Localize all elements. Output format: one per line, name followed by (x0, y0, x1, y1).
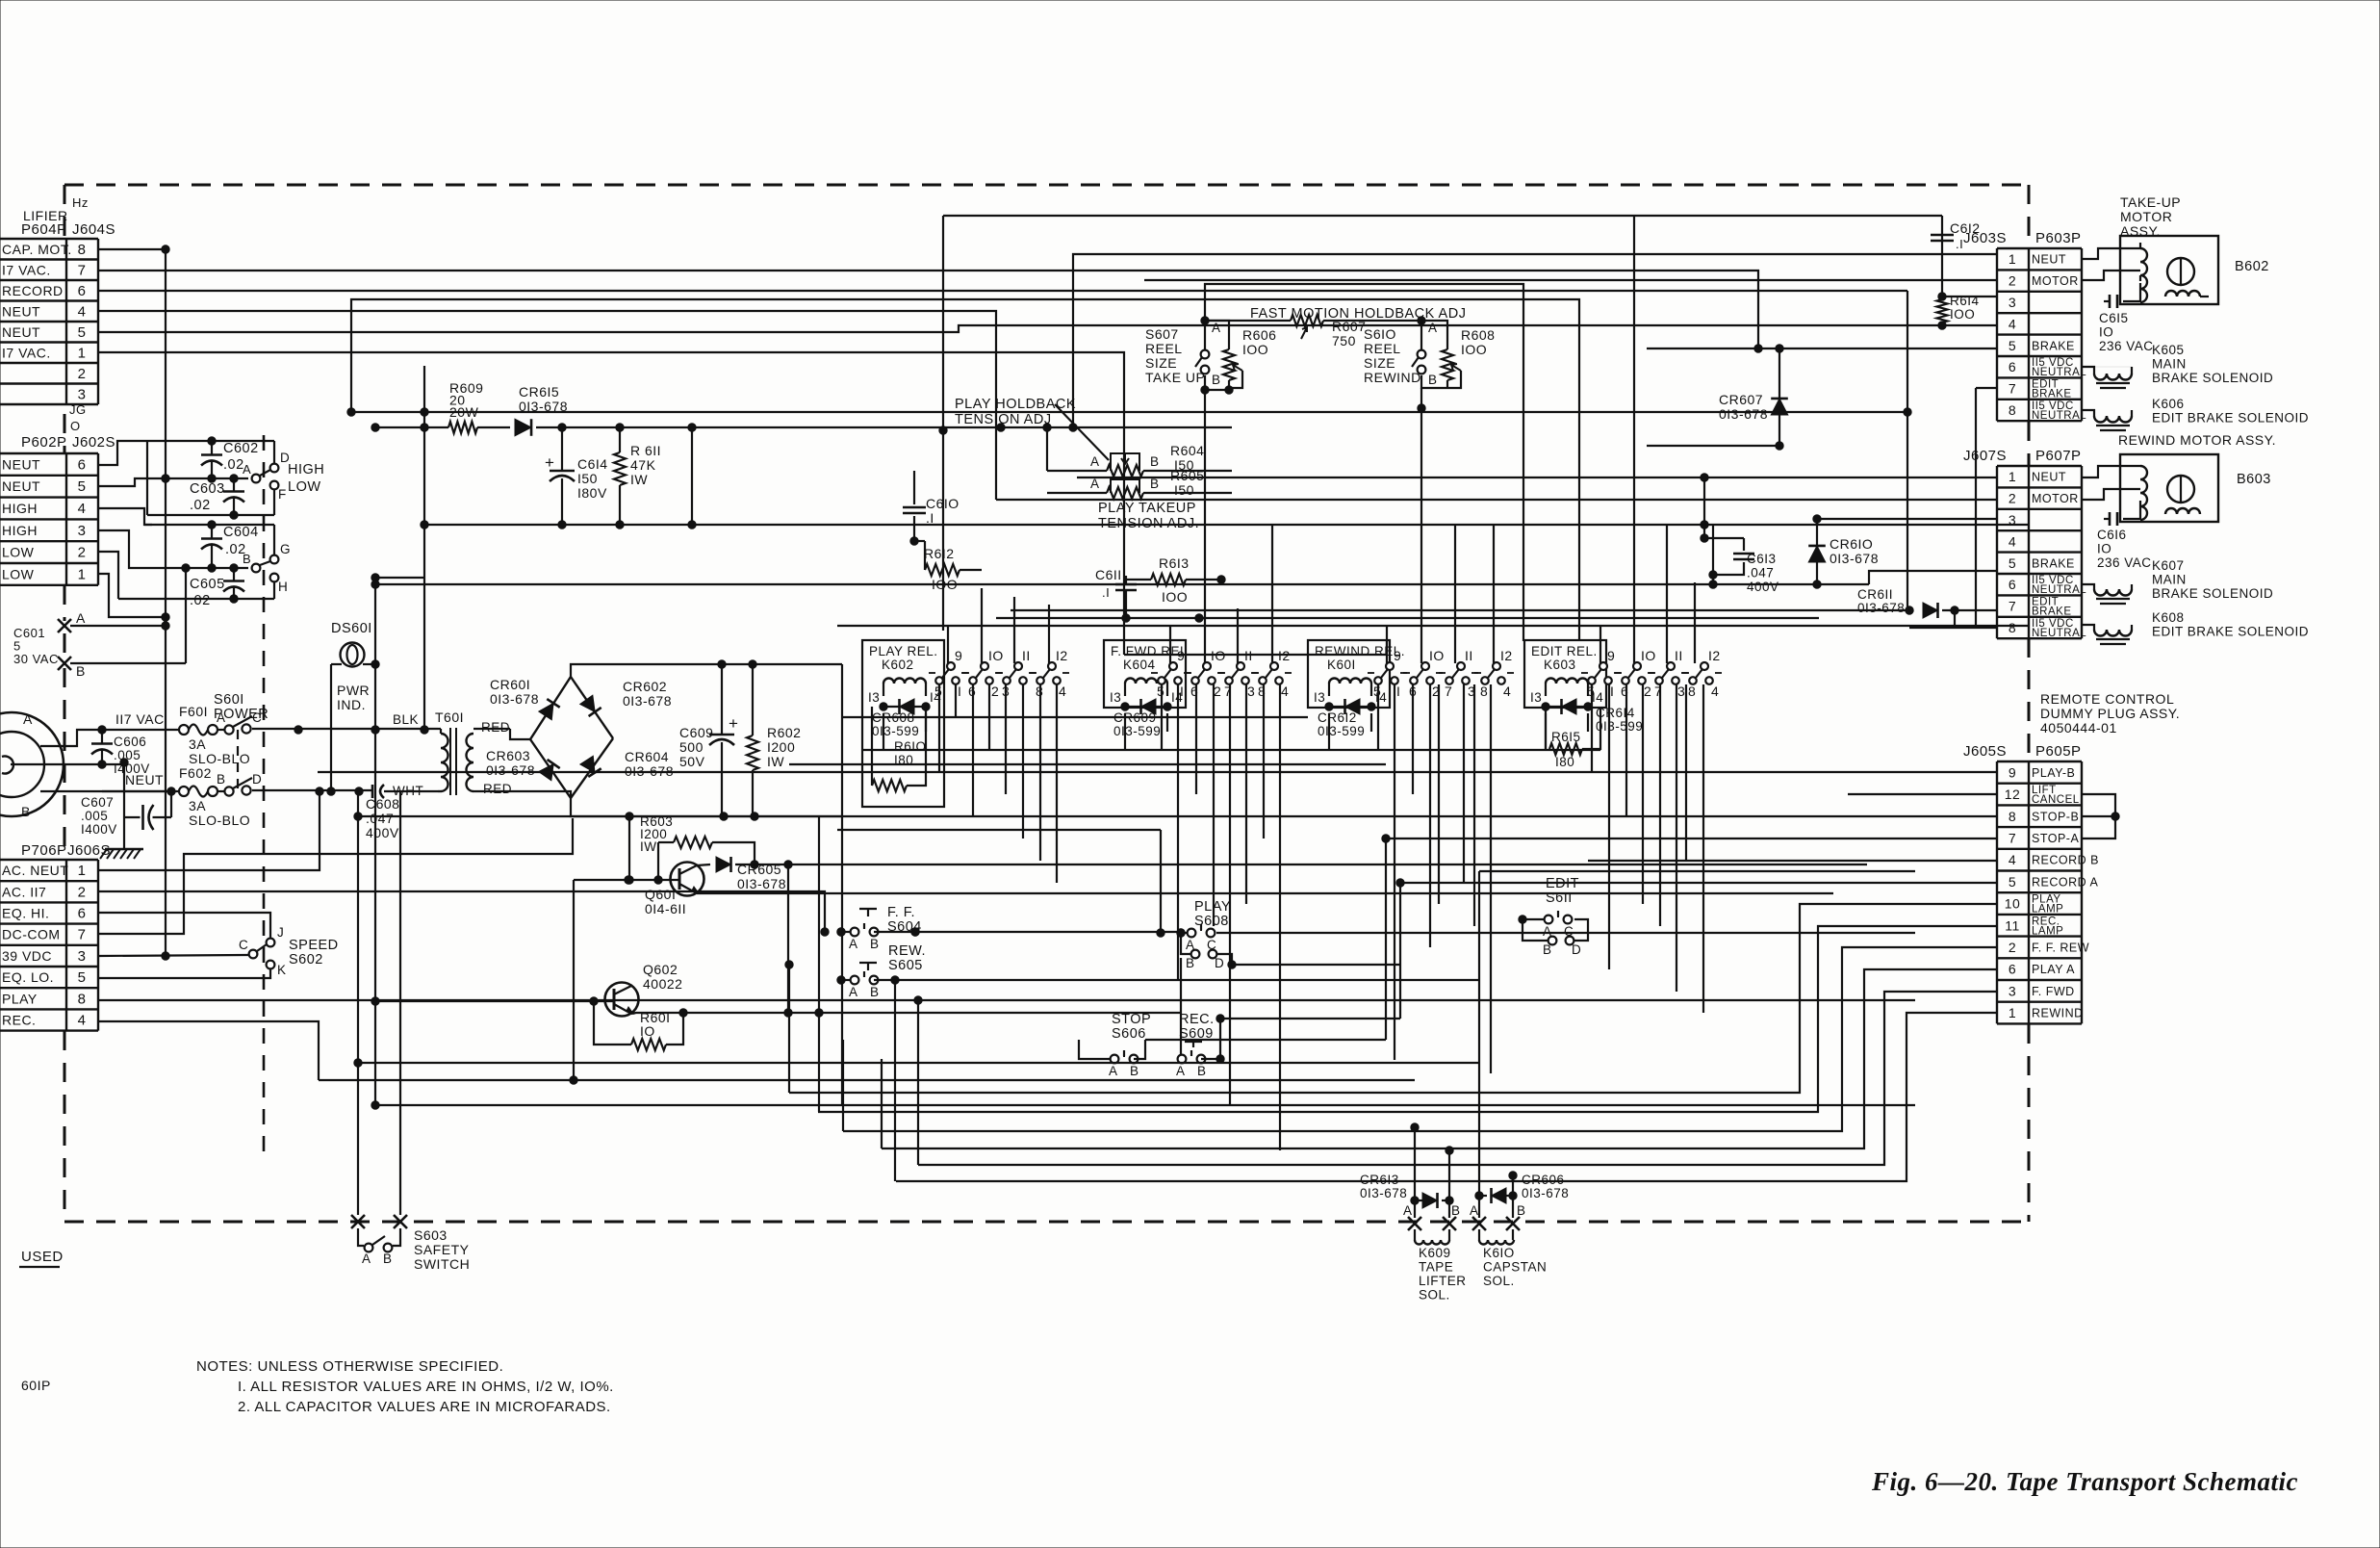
P605P loopback LIFT CANCEL to STOP-B (2082, 794, 2115, 816)
svg-text:R6IO: R6IO (894, 739, 927, 754)
svg-text:B: B (1543, 942, 1552, 957)
wire J604S pin7 bus down to brake line (98, 271, 1758, 348)
svg-text:SLO-BLO: SLO-BLO (189, 751, 250, 766)
relay contact I2/8/4 (1493, 662, 1500, 670)
svg-text:CR604: CR604 (625, 749, 669, 764)
switch S607 REEL SIZE TAKEUP (1204, 321, 1206, 349)
svg-text:0I3-678: 0I3-678 (486, 762, 535, 778)
svg-text:NOTES: UNLESS OTHERWISE SPEC: NOTES: UNLESS OTHERWISE SPECIFIED. (196, 1358, 503, 1375)
svg-text:39 VDC: 39 VDC (2, 948, 52, 964)
svg-text:RED: RED (481, 720, 510, 735)
cell1 bottom line (147, 514, 274, 516)
svg-text:B: B (383, 1251, 393, 1266)
wire J606S pin3 39VDC to S602 C (98, 955, 248, 956)
svg-text:S605: S605 (888, 958, 923, 973)
wire CR605 output right (755, 864, 1867, 865)
svg-text:A: A (1176, 1064, 1186, 1078)
svg-text:CANCEL: CANCEL (2032, 794, 2080, 806)
DC- rail from bridge bottom (571, 798, 842, 816)
svg-text:5: 5 (78, 324, 87, 341)
svg-text:1: 1 (2009, 1005, 2016, 1020)
svg-text:CR6I2: CR6I2 (1318, 710, 1357, 725)
svg-text:RED: RED (483, 782, 512, 796)
relay contact 9/5/I (1386, 662, 1394, 670)
svg-text:CR60I: CR60I (490, 677, 530, 692)
safety switch S603 (358, 1228, 364, 1246)
relay K604 coil (1125, 679, 1167, 684)
vertical S605 output drop (894, 980, 896, 1181)
svg-text:CR606: CR606 (1522, 1173, 1565, 1187)
solenoid K605 MAIN BRAKE (2082, 367, 2094, 374)
svg-text:B: B (1197, 1064, 1207, 1078)
connector J604S (to amplifier P604P) pin table (0, 238, 98, 240)
svg-text:CAP. MOT.: CAP. MOT. (2, 242, 72, 257)
svg-text:C607: C607 (81, 795, 114, 810)
svg-text:LOW: LOW (2, 545, 35, 560)
wire motor connections B603 (2082, 466, 2140, 477)
wire J606S pin4 REC bus (98, 1021, 319, 1080)
svg-text:IO: IO (988, 648, 1004, 663)
wire S610/R608 bottom (1421, 375, 1447, 388)
capacitor C608 in neutral line (371, 785, 374, 798)
svg-text:LAMP: LAMP (2032, 904, 2063, 916)
svg-text:B: B (1130, 1064, 1139, 1078)
svg-text:S607: S607 (1145, 326, 1179, 342)
svg-text:REEL: REEL (1145, 341, 1183, 356)
svg-text:Q60I: Q60I (645, 887, 676, 902)
svg-text:CR607: CR607 (1719, 392, 1763, 407)
svg-text:CR6I4: CR6I4 (1596, 706, 1635, 720)
svg-text:EDIT REL.: EDIT REL. (1531, 644, 1598, 658)
relay feed horizontals (841, 664, 843, 1105)
wire F to cell1 bottom (273, 489, 275, 515)
svg-text:CR603: CR603 (486, 748, 530, 763)
svg-text:LIFIER: LIFIER (23, 208, 68, 223)
wire plug center to neutral (11, 763, 124, 765)
svg-text:2: 2 (2009, 940, 2016, 955)
svg-text:P607P: P607P (2035, 448, 2082, 464)
svg-text:0I3-678: 0I3-678 (623, 693, 672, 709)
svg-text:9: 9 (1607, 648, 1615, 663)
power plug P601 (clipped at sheet edge) (0, 712, 64, 816)
wire J604S pin1 117VAC bus (98, 352, 1124, 655)
wire Q602 emitter rail (631, 1013, 1181, 1014)
svg-text:C608: C608 (366, 796, 399, 812)
svg-text:0I3-599: 0I3-599 (872, 724, 919, 738)
svg-text:R607: R607 (1332, 319, 1366, 334)
svg-text:R6I5: R6I5 (1551, 730, 1581, 744)
wire plug A to 117 VAC line (40, 730, 102, 746)
wire J606S pin1 (98, 791, 320, 870)
svg-text:PLAY REL.: PLAY REL. (869, 644, 938, 658)
motor B603 phase winding (2165, 508, 2200, 514)
motor B603 rotor (2167, 476, 2194, 503)
bundle left risers (788, 965, 790, 1093)
svg-text:NEUT: NEUT (2, 478, 40, 494)
svg-text:IO: IO (2097, 542, 2111, 556)
svg-text:I: I (958, 684, 961, 699)
wire brake feed line (1647, 348, 1997, 349)
svg-text:2: 2 (78, 366, 87, 382)
svg-text:S603: S603 (414, 1227, 448, 1243)
wire fast motion rail (1205, 320, 1291, 322)
svg-text:I3: I3 (1530, 690, 1542, 705)
svg-text:B602: B602 (2235, 259, 2269, 274)
svg-text:1: 1 (2009, 469, 2016, 484)
wire bundle row STOP-B (358, 815, 1997, 817)
svg-text:J605S: J605S (1963, 743, 2007, 760)
resistor R611 47K 1W (616, 424, 624, 431)
svg-text:.02: .02 (190, 593, 211, 608)
svg-text:O: O (70, 419, 81, 433)
svg-text:BLK: BLK (393, 712, 419, 727)
svg-text:I200: I200 (767, 739, 795, 755)
svg-text:NEUT: NEUT (2032, 471, 2066, 484)
svg-text:3A: 3A (189, 798, 206, 813)
svg-text:I3: I3 (1110, 690, 1121, 705)
misc junction dots (911, 928, 919, 936)
capacitor C603 (223, 490, 244, 493)
wire J602S pin3 to B-line (98, 530, 248, 568)
speed switch S602 (249, 950, 258, 959)
svg-text:C6I6: C6I6 (2097, 528, 2127, 542)
wire J603S pin2 MOTOR bus (1144, 279, 1997, 281)
svg-text:PLAY HOLDBACK: PLAY HOLDBACK (955, 397, 1076, 412)
svg-text:500: 500 (679, 739, 704, 755)
svg-text:NEUT: NEUT (2, 324, 40, 340)
switch S610 REEL SIZE REWIND (1420, 321, 1422, 349)
svg-text:20W: 20W (449, 404, 479, 420)
svg-text:I80V: I80V (577, 485, 607, 501)
power switch S601 A-C (218, 729, 225, 731)
resistor R601 10 (594, 1001, 631, 1045)
svg-text:S602: S602 (289, 952, 323, 967)
sub-assembly dashed boundary (263, 435, 266, 1160)
svg-text:C603: C603 (190, 481, 225, 497)
relay K603 coil (1546, 679, 1588, 684)
svg-text:2: 2 (991, 684, 999, 699)
wire 117VAC rail to R609 (375, 426, 448, 428)
relay contact IO/6/2 (981, 662, 988, 670)
relay contact II/7/3 (1457, 662, 1465, 670)
svg-text:CR602: CR602 (623, 679, 667, 694)
wire S601-C to transformer BLK (252, 728, 438, 730)
svg-text:0I3-599: 0I3-599 (1113, 724, 1161, 738)
relay K60I coil (1329, 679, 1371, 684)
svg-text:B: B (870, 985, 880, 999)
svg-text:2: 2 (2009, 273, 2016, 289)
svg-text:P602P: P602P (21, 434, 67, 451)
svg-text:0I4-6II: 0I4-6II (645, 901, 686, 916)
svg-text:WHT: WHT (393, 784, 423, 798)
svg-text:4: 4 (2009, 533, 2016, 549)
svg-text:K604: K604 (1123, 658, 1156, 672)
svg-text:BRAKE SOLENOID: BRAKE SOLENOID (2152, 371, 2273, 385)
svg-text:9: 9 (2009, 764, 2016, 780)
svg-text:SOL.: SOL. (1419, 1288, 1450, 1303)
relay contact 9/5/I (947, 662, 955, 670)
relay contact II/7/3 (1667, 662, 1675, 670)
svg-text:9: 9 (955, 648, 962, 663)
svg-text:3: 3 (2009, 295, 2016, 310)
svg-text:8: 8 (2009, 620, 2016, 635)
solenoid K606 EDIT BRAKE (2082, 410, 2094, 416)
capacitor C611 .1 (1125, 576, 1127, 584)
svg-text:K603: K603 (1544, 658, 1576, 672)
relay contact IO/6/2 (1203, 662, 1211, 670)
svg-text:REEL: REEL (1364, 341, 1401, 356)
wire J602S pin6 jog to cell1 top (98, 441, 141, 465)
wire bundle row STOP-A (1386, 838, 1997, 839)
svg-text:B: B (217, 772, 226, 787)
relay K602 box (862, 640, 944, 807)
diode CR610 013-678 (1816, 519, 1818, 584)
svg-text:B: B (1186, 956, 1195, 970)
svg-text:236 VAC: 236 VAC (2097, 555, 2152, 570)
svg-text:S6II: S6II (1546, 890, 1573, 906)
svg-text:K609: K609 (1419, 1246, 1451, 1260)
svg-text:I3: I3 (868, 690, 880, 705)
svg-text:2: 2 (1214, 684, 1221, 699)
vertical x=819 (CR605 to emitter rail) (787, 864, 789, 1013)
svg-text:2: 2 (78, 545, 87, 561)
svg-text:MAIN: MAIN (2152, 573, 2187, 587)
svg-text:.005: .005 (81, 809, 108, 823)
svg-text:P605P: P605P (2035, 743, 2082, 760)
svg-text:R 6II: R 6II (630, 443, 661, 458)
svg-text:A: A (1403, 1203, 1413, 1218)
svg-text:F. F.: F. F. (887, 905, 915, 920)
relay contact IO/6/2 (1421, 662, 1429, 670)
svg-text:8: 8 (2009, 809, 2016, 824)
svg-text:R6I4: R6I4 (1950, 294, 1980, 308)
transistor Q601 014-611 (671, 863, 704, 896)
svg-text:I2: I2 (1500, 648, 1513, 663)
relay coil pin drops (883, 713, 884, 750)
wire G to cell2 top (273, 525, 275, 555)
resistor R609 20 20W (448, 422, 477, 433)
motor B602 phase winding (2165, 291, 2200, 297)
safety switch S603 boundary X marks (351, 1215, 365, 1228)
svg-text:REMOTE CONTROL: REMOTE CONTROL (2040, 691, 2174, 707)
svg-text:4: 4 (1281, 684, 1289, 699)
svg-text:2: 2 (2009, 491, 2016, 506)
svg-text:IOO: IOO (1461, 342, 1487, 357)
wire J603S pin3 stub (1942, 296, 1997, 297)
wire node B riser (185, 568, 187, 663)
svg-text:A: A (1090, 454, 1100, 469)
enclosure dashed boundary (machine chassis) (64, 185, 2029, 1222)
svg-text:A: A (243, 462, 251, 477)
svg-text:C6I5: C6I5 (2099, 311, 2129, 325)
svg-text:4: 4 (78, 501, 87, 517)
svg-text:H: H (278, 580, 288, 594)
svg-text:T60I: T60I (435, 709, 464, 725)
fuse F602 3A SLO-BLO (167, 787, 175, 795)
diode CR613 013-678 (1411, 1197, 1419, 1204)
svg-text:B: B (870, 937, 880, 951)
svg-text:K60I: K60I (1327, 658, 1356, 672)
vertical feeds right area (1907, 291, 1908, 610)
svg-text:C609: C609 (679, 725, 713, 740)
svg-text:10: 10 (2005, 896, 2021, 912)
svg-text:C604: C604 (223, 525, 259, 540)
svg-text:B: B (1451, 1203, 1461, 1218)
svg-text:5: 5 (78, 478, 87, 495)
svg-text:LIFTER: LIFTER (1419, 1274, 1467, 1288)
diode CR608 (883, 706, 926, 708)
svg-text:F: F (278, 487, 287, 502)
svg-text:0I3-678: 0I3-678 (737, 876, 786, 891)
svg-text:NEUT: NEUT (2, 303, 40, 319)
svg-text:IOO: IOO (1950, 307, 1975, 322)
svg-text:+: + (729, 714, 738, 733)
svg-text:1: 1 (78, 863, 87, 879)
wire bundle row RECORD A (1400, 882, 1997, 884)
svg-text:B: B (1150, 454, 1160, 469)
switch S604 F.F. (841, 931, 851, 933)
wire J607S pin2 MOTOR (996, 499, 1997, 501)
svg-text:F. FWD: F. FWD (2032, 985, 2075, 998)
wire Q602 base from left (375, 1000, 614, 1002)
svg-text:8: 8 (78, 242, 87, 258)
resistor R612 100 (914, 540, 925, 542)
svg-text:I: I (1610, 684, 1614, 699)
wire J602S pin1 jog (98, 574, 166, 617)
svg-text:PLAY TAKEUP: PLAY TAKEUP (1098, 501, 1196, 516)
svg-text:7: 7 (78, 262, 87, 278)
svg-text:0I3-599: 0I3-599 (1318, 724, 1365, 738)
solenoid K607 MAIN BRAKE (2082, 584, 2094, 589)
leader line to R604 (1055, 404, 1109, 460)
svg-text:DC-COM: DC-COM (2, 927, 61, 942)
svg-text:6: 6 (78, 283, 87, 299)
S601 mechanical dashed link (237, 730, 239, 791)
wire D to cell1 top (273, 441, 275, 464)
svg-text:CR6I3: CR6I3 (1360, 1173, 1399, 1187)
relay contact I2/8/4 (1701, 662, 1708, 670)
svg-text:TENSION ADJ.: TENSION ADJ. (1098, 516, 1199, 531)
wire J604S pin5 NEUT bus to J603S pin4 (98, 325, 1997, 332)
svg-text:I: I (1180, 684, 1184, 699)
wire J604S pin8 stub (98, 248, 166, 250)
diode CR606 013-678 (1475, 1192, 1483, 1200)
svg-text:12: 12 (2005, 787, 2021, 802)
capacitor C605 (223, 580, 244, 582)
svg-text:AC. II7: AC. II7 (2, 884, 46, 899)
svg-text:SLO-BLO: SLO-BLO (189, 813, 250, 828)
svg-text:3: 3 (78, 948, 87, 965)
wire J607S pin1 NEUT (1077, 477, 1997, 478)
svg-text:I: I (1396, 684, 1400, 699)
svg-text:I7 VAC.: I7 VAC. (2, 345, 51, 360)
svg-text:40022: 40022 (643, 976, 682, 992)
cell2 top line (144, 524, 274, 526)
svg-text:S609: S609 (1179, 1026, 1214, 1042)
connector J607S / P607P pin table (rewind motor) (1997, 465, 2082, 467)
svg-text:7: 7 (1445, 684, 1452, 699)
svg-text:1: 1 (78, 566, 87, 582)
svg-text:EDIT BRAKE SOLENOID: EDIT BRAKE SOLENOID (2152, 411, 2309, 426)
svg-text:I7 VAC.: I7 VAC. (2, 262, 51, 277)
svg-text:60IP: 60IP (21, 1378, 51, 1393)
wire S601-D to WHT (252, 789, 372, 791)
svg-text:C606: C606 (114, 735, 146, 749)
svg-text:IO: IO (640, 1023, 655, 1039)
capacitor C613 .047 400V (1701, 534, 1708, 542)
svg-text:B: B (21, 804, 31, 819)
cell1 top line (141, 440, 274, 442)
svg-text:A: A (1428, 321, 1438, 335)
svg-text:F60I: F60I (179, 704, 208, 719)
svg-text:4050444-01: 4050444-01 (2040, 720, 2117, 735)
svg-text:C6I3: C6I3 (1747, 552, 1777, 566)
resistor R613 100 (1126, 579, 1151, 580)
svg-text:3: 3 (78, 386, 87, 402)
svg-text:2: 2 (1644, 684, 1651, 699)
connector J603S / P603P pin table (take-up motor) (1997, 247, 2082, 249)
svg-text:0I3-678: 0I3-678 (1719, 406, 1768, 422)
svg-text:K607: K607 (2152, 558, 2185, 573)
connector J605S / P605P pin table (remote control) (1997, 761, 2082, 762)
svg-text:4: 4 (1711, 684, 1719, 699)
svg-text:TAKE UP: TAKE UP (1145, 370, 1205, 385)
svg-text:NEUT: NEUT (2032, 253, 2066, 267)
svg-text:I80: I80 (1555, 755, 1574, 769)
svg-text:A: A (1470, 1203, 1479, 1218)
wire bundle row LIFT CANCEL (1848, 793, 1997, 795)
svg-text:CR6I5: CR6I5 (519, 384, 559, 400)
fast motion upper feeds (942, 430, 944, 631)
wire J606S pin5 EQ LO to S602 K (98, 969, 270, 978)
svg-text:R608: R608 (1461, 327, 1495, 343)
svg-text:G: G (280, 542, 291, 556)
svg-text:7: 7 (2009, 830, 2016, 845)
wire fast motion feed bus (1205, 284, 1523, 641)
diode CR605 013-678 (697, 864, 710, 865)
wire J604S pin4 NEUT bus to J607S pin2 MOTOR (98, 311, 996, 500)
svg-text:C6II: C6II (1095, 567, 1122, 582)
wire S605 output right (874, 979, 1479, 981)
bridge rectifier diamond (510, 729, 530, 739)
svg-text:A: A (23, 711, 33, 727)
solenoid K608 EDIT BRAKE (2082, 625, 2094, 630)
relay contact II/3/ (1014, 662, 1022, 670)
svg-text:R605: R605 (1170, 468, 1204, 483)
svg-text:7: 7 (78, 927, 87, 943)
svg-text:30 VAC: 30 VAC (13, 652, 59, 666)
svg-text:7: 7 (2009, 381, 2016, 397)
svg-text:PLAY: PLAY (2, 991, 38, 1006)
svg-text:USED: USED (21, 1249, 64, 1265)
svg-text:6: 6 (78, 906, 87, 922)
svg-text:IO: IO (1429, 648, 1445, 663)
svg-text:II: II (1465, 648, 1473, 663)
svg-text:4: 4 (78, 303, 87, 320)
svg-text:K: K (277, 963, 287, 977)
svg-text:5: 5 (2009, 338, 2016, 353)
vertical wire x=441 (423, 366, 425, 730)
svg-text:.047: .047 (366, 811, 394, 826)
svg-text:50V: 50V (679, 754, 705, 769)
svg-text:.02: .02 (223, 457, 244, 473)
wire bundle row RECORD B (1588, 860, 1997, 862)
svg-text:4: 4 (2009, 316, 2016, 331)
svg-text:CR6IO: CR6IO (1830, 536, 1873, 552)
svg-text:C602: C602 (223, 441, 259, 456)
svg-text:HIGH: HIGH (2, 501, 38, 516)
svg-text:K608: K608 (2152, 610, 2185, 625)
